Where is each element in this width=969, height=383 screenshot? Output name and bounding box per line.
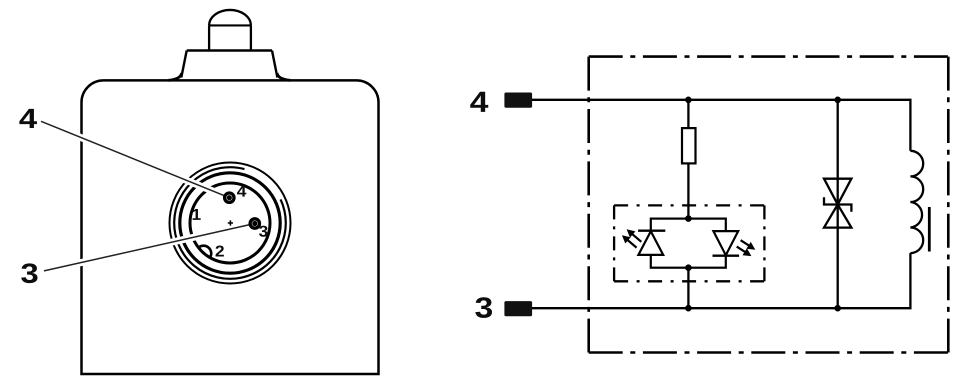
- right base fillet: [277, 73, 290, 80]
- pin number 2: [216, 245, 224, 256]
- leader line to pin 4: [41, 121, 229, 197]
- indicator dome: [209, 10, 251, 25]
- terminal label 3: [475, 297, 492, 318]
- top wire from terminal 4 to coil: [532, 100, 910, 151]
- keyway notch: [199, 246, 212, 258]
- center polarity mark: [228, 220, 233, 225]
- dome collar left side: [208, 25, 210, 50]
- junction dot LED bridge top: [685, 215, 692, 222]
- LED module dash-dot box: [614, 205, 764, 281]
- junction dot top-resistor: [685, 97, 692, 104]
- pin number 3: [259, 226, 268, 237]
- junction dot bottom-LED branch: [685, 305, 692, 312]
- enclosure dash-dot border: [589, 57, 949, 353]
- junction dot bottom-suppressor: [834, 305, 841, 312]
- pin 4: [225, 193, 234, 202]
- terminal 4 pad: [504, 93, 532, 108]
- LED D2 (right, pointing down): [713, 231, 740, 256]
- wire through suppressor branch: [837, 100, 839, 308]
- connector ring 3: [180, 173, 280, 273]
- label 4 (left): [19, 109, 37, 128]
- label 3 (left): [21, 263, 37, 283]
- pin number 1: [193, 209, 201, 220]
- resistor R: [682, 128, 696, 163]
- gland trapezoid left side: [181, 51, 186, 78]
- wire: resistor to LED bridge: [687, 163, 689, 218]
- LED D1 (left, pointing up): [638, 231, 665, 255]
- coil L (inductor): [910, 151, 923, 253]
- connector ring 2 (with gap top-right): [174, 167, 286, 279]
- suppressor diode Z (bidirectional): [824, 179, 851, 228]
- dome base line: [209, 24, 251, 26]
- coil core bar: [928, 207, 931, 252]
- junction dot LED bridge bottom: [685, 264, 692, 271]
- gland trapezoid top edge: [187, 49, 272, 51]
- LED bridge rectangle: [651, 219, 726, 268]
- dome collar right side: [250, 25, 252, 50]
- housing body: [82, 80, 379, 374]
- pin 3: [250, 219, 259, 228]
- bottom wire from terminal 3 to coil: [532, 253, 910, 308]
- LED D1 emission arrows: [622, 229, 641, 247]
- left base fillet: [169, 73, 182, 80]
- junction dot top-suppressor: [834, 97, 841, 104]
- pin number 4: [237, 186, 246, 197]
- terminal 3 pad: [504, 301, 532, 316]
- wire: LED bridge bottom to bottom wire: [687, 268, 689, 309]
- connector outer ring 1: [170, 163, 291, 284]
- wire: top to resistor: [687, 100, 689, 128]
- connector inner face circle: [190, 183, 270, 263]
- leader line to pin 3: [44, 224, 255, 271]
- gland trapezoid right side: [272, 51, 277, 78]
- LED D2 emission arrows: [737, 240, 756, 256]
- terminal label 4: [470, 92, 488, 112]
